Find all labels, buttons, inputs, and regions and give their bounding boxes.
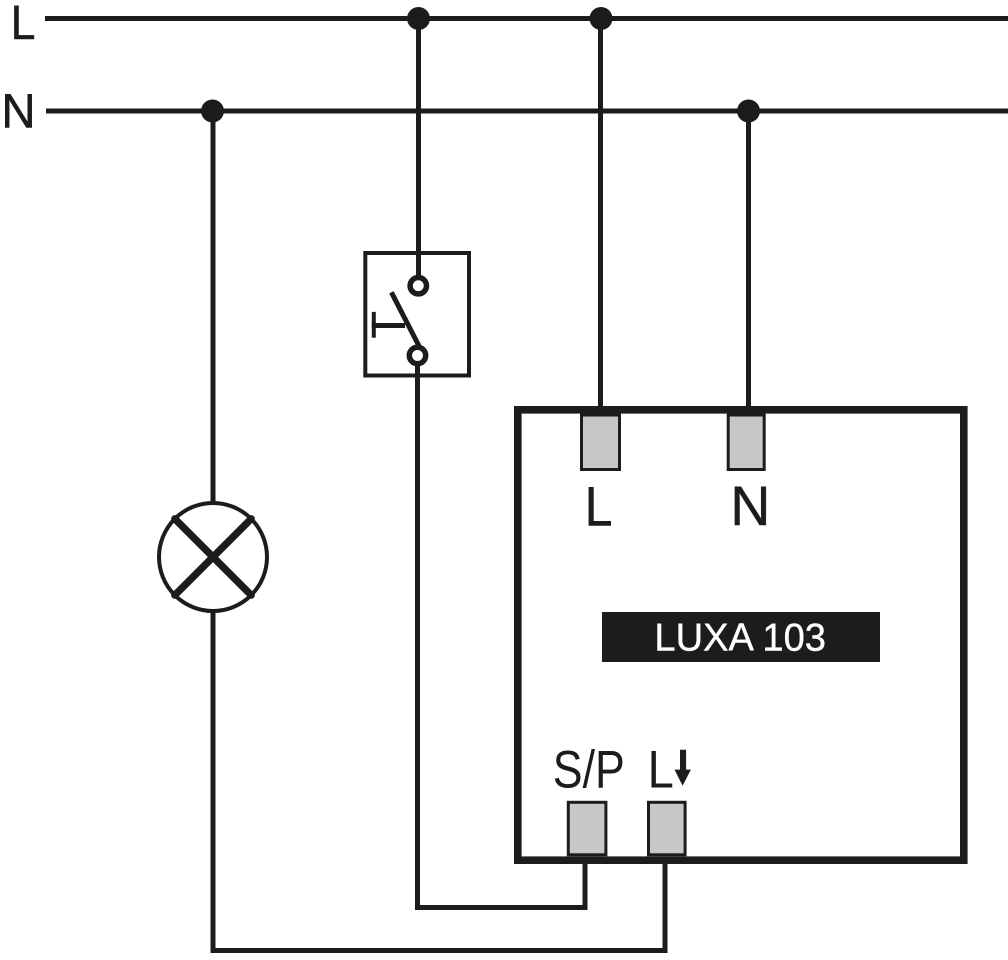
wire lamp to terminal L-arrow via bottom (213, 608, 665, 951)
terminal L-arrow gray pad (649, 802, 686, 855)
junction on N bus at device feed (737, 100, 760, 123)
wire N bus to lamp (211, 111, 216, 506)
switch S1 push actuator (372, 312, 405, 338)
switch S1 top contact (410, 278, 426, 294)
wire L bus to device terminal L (598, 19, 603, 413)
lamp E1 (159, 503, 267, 611)
svg-text:S/P: S/P (553, 740, 625, 799)
wire switch to terminal S/P via bottom (418, 362, 586, 908)
svg-text:N: N (730, 475, 770, 537)
switch S1 box (365, 253, 469, 376)
svg-text:LUXA 103: LUXA 103 (654, 616, 826, 659)
svg-text:L: L (585, 476, 613, 538)
terminal N gray pad (728, 415, 764, 470)
terminal L gray pad (582, 415, 620, 470)
device nameplate LUXA 103 (602, 612, 880, 662)
wire L bus (45, 16, 1008, 21)
terminal S/P gray pad (568, 802, 606, 855)
switch S1 bottom contact (409, 347, 425, 363)
wire N bus to device terminal N (746, 111, 751, 412)
wire L bus to switch (416, 19, 421, 279)
junction on L bus at switch feed (407, 7, 430, 30)
device LUXA 103 enclosure (518, 410, 964, 860)
svg-text:L: L (11, 0, 36, 50)
switch S1 lever (391, 292, 419, 346)
arrow down of switched output (675, 750, 691, 786)
junction on L bus at device feed (590, 7, 613, 30)
junction on N bus at lamp feed (201, 100, 224, 123)
svg-text:N: N (1, 84, 35, 138)
svg-text:L: L (648, 740, 674, 799)
wire N bus (46, 109, 1008, 114)
